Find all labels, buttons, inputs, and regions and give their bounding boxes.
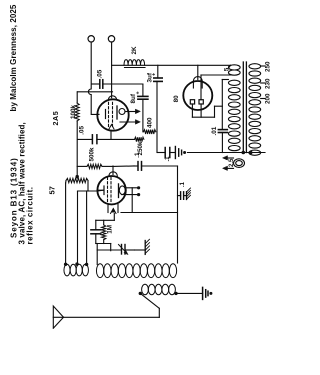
svg-text:200: 200 — [264, 93, 271, 104]
svg-text:80: 80 — [173, 95, 180, 103]
svg-text:230: 230 — [264, 78, 271, 89]
svg-text:.05: .05 — [97, 69, 104, 78]
svg-text:by Malcolm Grenness, 2025: by Malcolm Grenness, 2025 — [9, 4, 18, 111]
svg-text:1M: 1M — [107, 225, 114, 234]
svg-text:2A5: 2A5 — [51, 111, 60, 126]
svg-text:57: 57 — [48, 186, 57, 194]
svg-text:400: 400 — [146, 117, 153, 128]
svg-text:.1: .1 — [180, 181, 186, 187]
svg-text:.05: .05 — [79, 125, 86, 134]
svg-text:reflex circuit.: reflex circuit. — [26, 186, 35, 244]
svg-text:250: 250 — [264, 61, 271, 72]
svg-text:100k: 100k — [70, 104, 77, 119]
svg-text:.1: .1 — [165, 156, 171, 162]
svg-text:2.5: 2.5 — [229, 158, 235, 167]
svg-text:.01: .01 — [211, 126, 218, 135]
svg-text:5: 5 — [224, 67, 231, 71]
svg-text:+: + — [152, 73, 158, 76]
svg-text:2K: 2K — [131, 46, 138, 55]
svg-text:+: + — [136, 91, 142, 94]
svg-text:500k: 500k — [89, 147, 96, 162]
svg-text:.1: .1 — [134, 152, 141, 158]
